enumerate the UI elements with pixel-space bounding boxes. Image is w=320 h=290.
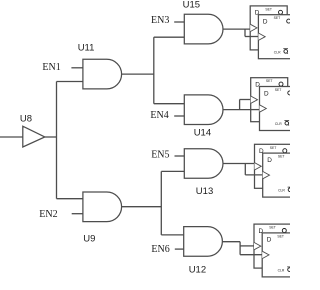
and-gate U12 [184, 227, 223, 276]
flip-flop FF1 front (clocked by U15) [258, 15, 295, 59]
svg-text:SET: SET [278, 155, 285, 159]
svg-text:U12: U12 [189, 264, 206, 275]
svg-text:CLR: CLR [278, 189, 285, 193]
buffer U8 [20, 114, 45, 147]
wire: EN4 stub [174, 115, 184, 117]
svg-text:D: D [263, 19, 268, 26]
svg-text:SET: SET [266, 79, 273, 83]
svg-text:U11: U11 [78, 43, 95, 54]
svg-text:D: D [264, 90, 269, 97]
wire: input net to U8 [0, 136, 23, 138]
svg-text:U13: U13 [196, 186, 213, 197]
flip-flop FF3 front (clocked by U13) [263, 153, 300, 197]
wire: FF2 front clock feed [251, 109, 260, 111]
svg-text:D: D [267, 237, 272, 244]
svg-text:U9: U9 [83, 233, 95, 244]
svg-text:CLR: CLR [275, 122, 282, 126]
wire: bus to U12 upper input [161, 234, 183, 236]
svg-text:U8: U8 [20, 114, 32, 125]
wire: U11 output [122, 73, 154, 75]
wire: FF1 front clock feed [245, 36, 258, 38]
and-gate U13 [184, 149, 223, 198]
and-gate U14 [184, 95, 223, 139]
wire: FF3 front clock feed [245, 174, 262, 176]
svg-text:SET: SET [275, 88, 282, 92]
flip-flop FF3 back (clocked by U13) [255, 144, 292, 188]
and-gate U9 [83, 192, 122, 244]
svg-text:EN1: EN1 [42, 62, 60, 73]
wire: U13 output to FF3 clocks [223, 164, 255, 175]
wire: bus to U9 upper input [57, 198, 83, 200]
wire: vertical bus to U15/U14 [153, 37, 155, 104]
svg-text:SET: SET [265, 7, 272, 11]
flip-flop FF4 front (clocked by U12) [262, 233, 299, 277]
wire: bus to U15 lower input [154, 36, 185, 38]
svg-text:SET: SET [277, 234, 284, 238]
flip-flop FF4 back (clocked by U12) [254, 224, 291, 268]
wire: bus to U13 lower input [161, 170, 184, 172]
flip-flop FF2 back (clocked by U14) [251, 78, 288, 122]
svg-text:SET: SET [269, 226, 276, 230]
and-gate U15 [183, 0, 223, 44]
flip-flop FF1 back (clocked by U15) [250, 6, 287, 50]
svg-text:EN2: EN2 [39, 209, 57, 220]
wire: EN3 stub [174, 21, 184, 23]
svg-text:EN4: EN4 [150, 110, 168, 121]
svg-text:EN3: EN3 [151, 15, 169, 26]
svg-text:U15: U15 [183, 0, 200, 10]
wire: EN6 stub [175, 248, 184, 250]
svg-text:D: D [267, 157, 272, 164]
wire: U9 output [122, 206, 162, 208]
svg-text:EN5: EN5 [151, 150, 169, 161]
wire: vertical bus from U8 output [56, 82, 58, 199]
svg-text:SET: SET [274, 16, 281, 20]
and-gate U11 [78, 43, 122, 89]
wire: U12 output to FF4 clocks [222, 242, 254, 255]
svg-text:CLR: CLR [278, 269, 285, 273]
wire: U14 output to FF2 clocks [223, 100, 251, 110]
wire: EN2 stub [72, 213, 83, 215]
wire: EN5 stub [175, 155, 185, 157]
flip-flop FF2 front (clocked by U14) [260, 87, 297, 131]
wire: EN1 stub [71, 67, 83, 69]
wire: U8 output [45, 136, 57, 138]
svg-text:U14: U14 [194, 128, 211, 139]
wire: bus to U11 lower input [57, 81, 83, 83]
wire: vertical bus to U13/U12 [160, 171, 162, 235]
wire: FF4 front clock feed [240, 254, 262, 256]
svg-text:CLR: CLR [274, 50, 281, 54]
wire: bus to U14 upper input [154, 103, 185, 105]
svg-text:SET: SET [270, 146, 277, 150]
wire: U15 output to FF1 clocks [223, 29, 251, 36]
svg-text:EN6: EN6 [151, 244, 169, 255]
